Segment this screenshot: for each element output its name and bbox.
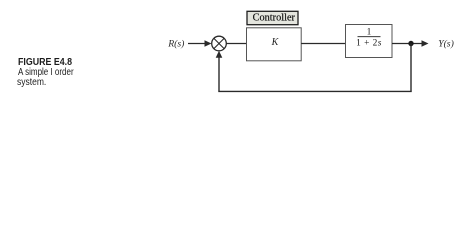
svg-text:K: K: [271, 37, 280, 48]
svg-text:Y(s): Y(s): [438, 39, 454, 50]
arrowhead to Y(s): [422, 40, 429, 47]
feedback wire right vertical: [410, 44, 412, 92]
svg-text:1 + 2s: 1 + 2s: [356, 39, 382, 49]
feedback wire left vertical: [218, 55, 220, 91]
junction dot: [408, 41, 413, 46]
arrowhead into summing junction (bottom): [216, 51, 223, 58]
svg-text:R(s): R(s): [167, 39, 184, 50]
controller label box "Controller": [247, 11, 298, 24]
arrowhead into summing junction (left): [205, 40, 212, 47]
summing junction (circle with X): [212, 36, 227, 51]
plant block 1/(1+2s): [346, 25, 393, 58]
wire summing junction to controller block: [226, 43, 246, 45]
wire R(s) to summing junction: [188, 43, 207, 45]
wire plant to output: [392, 43, 423, 45]
feedback wire bottom horizontal: [218, 90, 411, 92]
wire controller to plant block: [301, 43, 345, 45]
svg-text:1: 1: [367, 28, 372, 38]
output label Y(s): [438, 39, 454, 50]
figure caption FIGURE E4.8: [18, 57, 72, 68]
svg-text:Controller: Controller: [253, 13, 296, 24]
controller block K: [247, 28, 302, 61]
input label R(s): [167, 39, 184, 50]
